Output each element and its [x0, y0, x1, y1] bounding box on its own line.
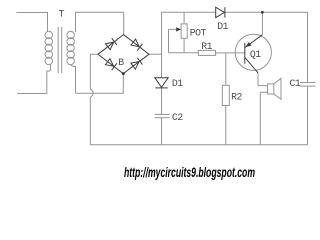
- svg-text:POT: POT: [190, 27, 207, 38]
- svg-text:C2: C2: [172, 112, 183, 123]
- svg-text:T: T: [59, 8, 65, 19]
- svg-text:R1: R1: [201, 41, 212, 52]
- svg-text:D1: D1: [172, 78, 183, 89]
- svg-text:R2: R2: [231, 92, 242, 103]
- svg-text:Q1: Q1: [250, 49, 261, 60]
- svg-text:http://mycircuits9.blogspot.co: http://mycircuits9.blogspot.com: [124, 165, 255, 180]
- svg-text:B: B: [118, 57, 124, 68]
- svg-text:C1: C1: [290, 78, 301, 89]
- svg-text:D1: D1: [217, 21, 228, 32]
